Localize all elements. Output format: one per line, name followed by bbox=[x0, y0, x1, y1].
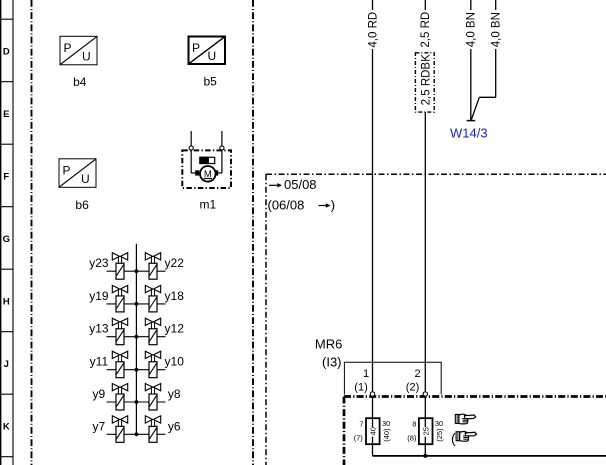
svg-text:2,5 RDBK: 2,5 RDBK bbox=[420, 54, 432, 105]
svg-text:05/08: 05/08 bbox=[284, 177, 317, 192]
svg-text:(2): (2) bbox=[406, 382, 419, 394]
svg-text:7: 7 bbox=[359, 420, 363, 429]
svg-text:MR6: MR6 bbox=[315, 337, 342, 352]
svg-text:y22: y22 bbox=[165, 256, 185, 270]
svg-text:b5: b5 bbox=[204, 75, 218, 89]
svg-text:m1: m1 bbox=[200, 198, 217, 212]
svg-text:(7): (7) bbox=[354, 434, 364, 443]
svg-text:25: 25 bbox=[421, 427, 430, 435]
svg-text:1: 1 bbox=[363, 368, 369, 380]
svg-text:P: P bbox=[192, 41, 200, 55]
svg-text:(25): (25) bbox=[435, 428, 444, 442]
svg-text:(1): (1) bbox=[354, 382, 367, 394]
svg-text:(06/08: (06/08 bbox=[268, 198, 305, 213]
svg-text:F: F bbox=[3, 171, 9, 182]
svg-text:y9: y9 bbox=[93, 387, 106, 401]
svg-text:y7: y7 bbox=[93, 419, 106, 433]
svg-text:(: ( bbox=[451, 430, 456, 446]
svg-text:30: 30 bbox=[435, 419, 443, 428]
svg-text:(8): (8) bbox=[407, 434, 417, 443]
svg-text:y19: y19 bbox=[89, 289, 109, 303]
svg-text:H: H bbox=[3, 296, 10, 307]
svg-text:y11: y11 bbox=[90, 355, 109, 369]
svg-text:y23: y23 bbox=[89, 256, 109, 270]
svg-text:G: G bbox=[3, 234, 10, 245]
svg-text:b6: b6 bbox=[75, 198, 89, 212]
svg-text:y12: y12 bbox=[165, 322, 185, 336]
svg-text:U: U bbox=[208, 49, 217, 63]
svg-text:W14/3: W14/3 bbox=[450, 126, 488, 141]
svg-text:J: J bbox=[4, 359, 9, 370]
svg-text:(I3): (I3) bbox=[322, 354, 342, 369]
svg-text:E: E bbox=[3, 109, 9, 120]
svg-text:y8: y8 bbox=[168, 387, 181, 401]
svg-text:): ) bbox=[331, 198, 335, 213]
svg-text:D: D bbox=[3, 46, 10, 57]
svg-text:b4: b4 bbox=[73, 75, 87, 89]
svg-text:K: K bbox=[3, 421, 10, 432]
svg-text:30: 30 bbox=[382, 419, 390, 428]
svg-text:4,0 RD: 4,0 RD bbox=[367, 12, 379, 48]
svg-text:40: 40 bbox=[369, 427, 378, 435]
svg-text:(40): (40) bbox=[382, 428, 391, 442]
svg-text:y10: y10 bbox=[165, 355, 185, 369]
svg-text:8: 8 bbox=[412, 420, 416, 429]
svg-text:y18: y18 bbox=[165, 289, 185, 303]
svg-text:2,5 RD: 2,5 RD bbox=[420, 12, 432, 48]
svg-text:4,0 BN: 4,0 BN bbox=[491, 12, 503, 47]
svg-text:2: 2 bbox=[415, 368, 421, 380]
svg-text:y6: y6 bbox=[168, 419, 181, 433]
svg-text:4,0 BN: 4,0 BN bbox=[466, 12, 478, 47]
svg-text:y13: y13 bbox=[89, 322, 109, 336]
